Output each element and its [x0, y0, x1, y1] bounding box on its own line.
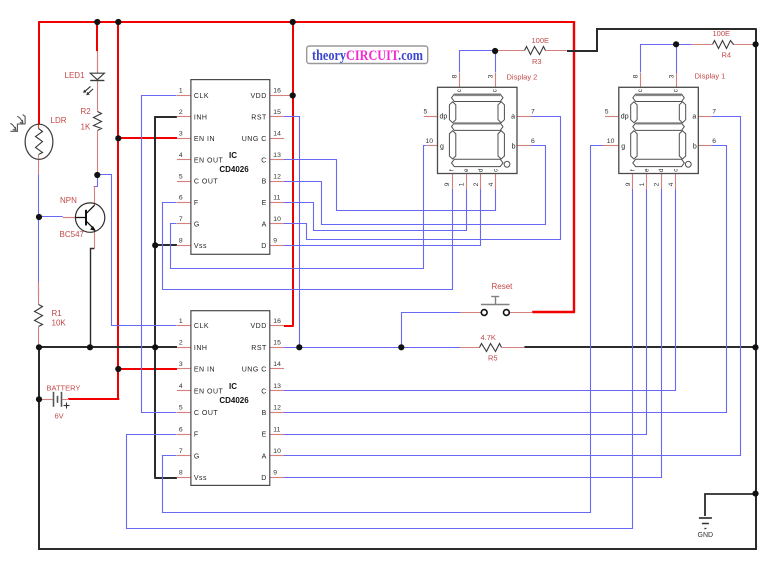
- wire segment G1: [171, 146, 427, 269]
- ground GND: [699, 517, 712, 519]
- svg-text:2: 2: [473, 182, 480, 186]
- svg-text:b: b: [512, 143, 516, 150]
- svg-text:8: 8: [179, 238, 183, 245]
- svg-text:R1: R1: [52, 309, 63, 318]
- wire reset button branch: [402, 313, 461, 348]
- svg-text:NPN: NPN: [60, 196, 77, 205]
- wire display1 b link: [698, 145, 711, 147]
- wire display2 a link: [517, 116, 531, 118]
- svg-text:c: c: [457, 89, 463, 92]
- svg-text:8: 8: [179, 470, 183, 477]
- wire R5 left lead: [460, 347, 480, 349]
- wire battery neg lead: [39, 399, 53, 401]
- svg-text:5: 5: [424, 109, 428, 116]
- svg-text:10: 10: [426, 138, 434, 145]
- svg-text:11: 11: [273, 426, 280, 433]
- wire display1 pin3 up: [676, 44, 678, 73]
- svg-text:3: 3: [179, 131, 183, 138]
- wire collector lead: [94, 186, 96, 205]
- wire segment B2: [284, 146, 727, 413]
- wire base horizontal: [39, 216, 63, 218]
- wire display1 a link: [698, 116, 711, 118]
- display DS1 box: [619, 87, 699, 173]
- svg-text:12: 12: [273, 173, 281, 180]
- svg-text:CLK: CLK: [194, 323, 209, 330]
- IC U1 CD4026 box: [191, 80, 270, 255]
- wire display2 cathode joins: [460, 51, 496, 73]
- wire segment F1: [163, 189, 453, 290]
- svg-text:F: F: [194, 200, 199, 207]
- wire cascade COUT2 to CLK1: [142, 96, 177, 413]
- svg-text:3: 3: [179, 361, 183, 368]
- svg-text:IC: IC: [229, 151, 237, 160]
- svg-text:C OUT: C OUT: [194, 179, 219, 186]
- svg-text:13: 13: [273, 383, 281, 390]
- wire display2 dp stub: [424, 116, 438, 118]
- svg-text:UNG C: UNG C: [242, 136, 267, 143]
- svg-text:10: 10: [273, 216, 281, 223]
- svg-text:Reset: Reset: [492, 282, 514, 291]
- svg-text:4: 4: [668, 182, 675, 186]
- battery B1: [53, 392, 55, 407]
- svg-text:14: 14: [273, 131, 281, 138]
- svg-text:G: G: [194, 453, 200, 460]
- svg-text:C: C: [261, 157, 267, 164]
- svg-text:100E: 100E: [532, 36, 550, 45]
- svg-text:g: g: [440, 143, 444, 150]
- svg-text:4.7K: 4.7K: [481, 333, 496, 342]
- svg-text:R2: R2: [81, 107, 92, 116]
- wire emitter to ground bus: [91, 249, 95, 348]
- wire battery plus to column: [68, 398, 119, 400]
- svg-text:R3: R3: [532, 57, 542, 66]
- wire display1 g stub: [603, 145, 619, 147]
- svg-text:BC547: BC547: [60, 230, 85, 239]
- LDR: [25, 124, 53, 159]
- display DS2 decimal point: [504, 161, 510, 167]
- svg-text:B: B: [262, 179, 267, 186]
- svg-text:E: E: [262, 200, 267, 207]
- wire battery pos lead: [63, 399, 70, 401]
- wire LED feed: [96, 21, 98, 51]
- wire R3 right lead: [546, 50, 567, 52]
- svg-text:Vss: Vss: [194, 475, 207, 482]
- svg-text:8: 8: [633, 74, 640, 78]
- svg-text:9: 9: [444, 182, 451, 186]
- wire VDD column to battery: [117, 21, 119, 399]
- svg-text:INH: INH: [194, 115, 208, 122]
- svg-text:D: D: [261, 243, 267, 250]
- svg-text:2: 2: [179, 340, 183, 347]
- wire segment A1: [284, 117, 561, 240]
- wire segment D1: [284, 189, 481, 246]
- wire display2 bottom stubs: [452, 173, 454, 189]
- svg-text:7: 7: [531, 109, 535, 116]
- svg-text:13: 13: [273, 152, 281, 159]
- wire VDD rail to ICs: [292, 21, 294, 326]
- svg-text:EN IN: EN IN: [194, 136, 215, 143]
- svg-text:VDD: VDD: [251, 323, 267, 330]
- display DS1 segments: [631, 94, 686, 167]
- svg-text:a: a: [511, 114, 515, 121]
- wire display1 cathode joins: [641, 45, 692, 73]
- svg-text:B: B: [262, 410, 267, 417]
- svg-text:R4: R4: [722, 51, 732, 60]
- svg-text:9: 9: [273, 470, 277, 477]
- LDR arrows: [10, 115, 25, 132]
- svg-text:D: D: [261, 475, 267, 482]
- wire IC1 RST down: [284, 117, 300, 348]
- svg-text:8: 8: [452, 74, 459, 78]
- wire display1 bottom stubs: [632, 174, 634, 189]
- wire sensor to IC2 CLK: [98, 175, 177, 326]
- wire INH Vss vertical: [154, 117, 156, 478]
- svg-text:BATTERY: BATTERY: [47, 384, 81, 393]
- svg-text:C: C: [261, 388, 267, 395]
- resistor R2: [94, 112, 102, 131]
- svg-text:d: d: [659, 169, 665, 172]
- svg-text:dp: dp: [440, 114, 448, 121]
- wire VDD top rail: [39, 21, 574, 23]
- svg-text:A: A: [262, 453, 267, 460]
- wire top right ground: [567, 29, 756, 51]
- svg-text:EN IN: EN IN: [194, 367, 215, 374]
- svg-text:R5: R5: [488, 354, 498, 363]
- wire display1 top stubs: [640, 73, 642, 87]
- svg-text:5: 5: [605, 109, 609, 116]
- wire IC1 Vss spur: [154, 244, 177, 246]
- wire reset left lead: [460, 312, 481, 314]
- wire segment C2: [284, 189, 676, 391]
- svg-text:d: d: [478, 169, 484, 172]
- svg-text:Display 1: Display 1: [695, 72, 726, 81]
- svg-text:5: 5: [179, 405, 183, 412]
- svg-text:9: 9: [625, 182, 632, 186]
- wire R4 left lead: [692, 44, 712, 46]
- wire IC1 VDD stub link: [270, 95, 293, 97]
- wire emitter lead: [94, 231, 96, 250]
- svg-text:CD4026: CD4026: [219, 396, 249, 405]
- LED1 arrows: [84, 86, 90, 92]
- wire R5 right lead: [502, 347, 525, 349]
- wire base lead: [63, 217, 76, 219]
- wire collector jog: [94, 175, 98, 187]
- wire R1 top lead: [38, 282, 40, 305]
- push button Reset: [481, 310, 487, 316]
- wire ground bus: [39, 346, 177, 348]
- svg-text:b: b: [693, 143, 697, 150]
- resistor R5: [480, 344, 502, 352]
- svg-text:7: 7: [712, 109, 716, 116]
- wire R1 bottom lead: [38, 327, 40, 348]
- wire display2 g stub: [427, 145, 438, 147]
- display DS2 segments: [449, 94, 504, 167]
- svg-text:E: E: [262, 432, 267, 439]
- svg-text:6: 6: [179, 195, 183, 202]
- wire IC2 VDD link: [284, 325, 294, 327]
- svg-text:15: 15: [273, 340, 281, 347]
- svg-text:c: c: [493, 169, 499, 172]
- svg-text:dp: dp: [621, 114, 629, 121]
- wire reset VDD rail: [573, 21, 575, 313]
- svg-text:9: 9: [273, 238, 277, 245]
- svg-text:EN OUT: EN OUT: [194, 388, 224, 395]
- svg-text:4: 4: [179, 383, 183, 390]
- svg-text:F: F: [194, 432, 199, 439]
- IC2 pin stubs: [177, 325, 191, 327]
- junction dots: [94, 19, 100, 25]
- display DS1 decimal point: [685, 161, 691, 167]
- wire GND branch: [705, 494, 756, 516]
- wire segment A2: [284, 117, 741, 456]
- wire segment G2: [163, 146, 604, 513]
- svg-text:15: 15: [273, 109, 281, 116]
- svg-text:UNG C: UNG C: [242, 367, 267, 374]
- svg-text:A: A: [262, 222, 267, 229]
- svg-text:1: 1: [179, 318, 183, 325]
- svg-text:1: 1: [639, 182, 646, 186]
- logo theoryCIRCUIT.com: [307, 46, 428, 64]
- svg-text:2: 2: [179, 109, 183, 116]
- svg-text:14: 14: [273, 361, 281, 368]
- wire IC1 INH spur: [154, 116, 177, 118]
- svg-text:16: 16: [273, 318, 281, 325]
- svg-text:Display 2: Display 2: [507, 73, 538, 82]
- svg-text:5: 5: [179, 173, 183, 180]
- svg-text:3: 3: [669, 74, 676, 78]
- svg-text:C OUT: C OUT: [194, 410, 219, 417]
- wire right ground rail: [755, 28, 757, 550]
- svg-text:EN OUT: EN OUT: [194, 157, 224, 164]
- resistor R3: [525, 47, 546, 55]
- wire R5 to ground rail: [524, 346, 755, 348]
- wire display2 b link: [517, 145, 531, 147]
- svg-text:1: 1: [458, 182, 465, 186]
- wire R4 right lead: [733, 44, 756, 46]
- svg-text:6: 6: [712, 138, 716, 145]
- svg-text:6: 6: [531, 138, 535, 145]
- wire reset VDD horizontal: [532, 311, 575, 313]
- svg-text:theoryCIRCUIT.com: theoryCIRCUIT.com: [312, 48, 423, 64]
- wire segment F2: [127, 189, 633, 529]
- wire ENIN branch IC1: [118, 137, 177, 139]
- svg-text:11: 11: [273, 195, 280, 202]
- svg-text:CD4026: CD4026: [219, 165, 249, 174]
- wire left ground down: [38, 346, 40, 550]
- wire reset right lead: [509, 312, 532, 314]
- svg-text:c: c: [674, 89, 680, 92]
- wire segment B1: [284, 146, 546, 225]
- svg-text:IC: IC: [229, 382, 237, 391]
- svg-text:7: 7: [179, 448, 183, 455]
- svg-text:LED1: LED1: [65, 71, 86, 80]
- svg-text:2: 2: [653, 182, 660, 186]
- svg-text:1: 1: [179, 88, 183, 95]
- wire display2 top stubs: [459, 73, 461, 87]
- wire LDR to base and R1: [38, 174, 40, 297]
- svg-text:c: c: [673, 169, 679, 172]
- wire display1 dp stub: [605, 116, 619, 118]
- svg-text:LDR: LDR: [51, 116, 67, 125]
- transistor Q1 BC547: [75, 203, 104, 232]
- svg-text:RST: RST: [251, 115, 267, 122]
- svg-text:10: 10: [607, 138, 615, 145]
- svg-text:100E: 100E: [713, 29, 731, 38]
- svg-text:GND: GND: [698, 532, 714, 539]
- wire LDR bottom lead: [38, 159, 40, 174]
- svg-text:Vss: Vss: [194, 243, 207, 250]
- display DS2 box: [438, 87, 518, 173]
- svg-text:VDD: VDD: [251, 93, 267, 100]
- IC1 pin stubs: [177, 95, 191, 97]
- wire LED to R2 lead: [97, 81, 99, 112]
- svg-text:c: c: [493, 89, 499, 92]
- svg-text:1K: 1K: [81, 123, 91, 132]
- svg-text:16: 16: [273, 88, 281, 95]
- svg-text:CLK: CLK: [194, 93, 209, 100]
- wire segment E2: [284, 189, 647, 435]
- wire segment E1: [284, 189, 467, 231]
- svg-text:10: 10: [273, 448, 281, 455]
- wire R3 left lead: [495, 50, 524, 52]
- svg-text:4: 4: [179, 152, 183, 159]
- svg-text:10K: 10K: [52, 319, 67, 328]
- svg-text:c: c: [638, 89, 644, 92]
- svg-text:6: 6: [179, 426, 183, 433]
- wire segment C1: [284, 160, 496, 211]
- resistor R1: [35, 305, 43, 327]
- svg-text:g: g: [621, 143, 625, 150]
- wire RST line: [284, 347, 460, 349]
- svg-text:7: 7: [179, 216, 183, 223]
- wire R2 bottom lead: [97, 131, 99, 175]
- svg-text:a: a: [692, 114, 696, 121]
- wire left rail to LDR: [38, 21, 40, 124]
- svg-text:6V: 6V: [55, 412, 64, 421]
- wire segment D2: [284, 189, 662, 478]
- svg-text:4: 4: [488, 182, 495, 186]
- svg-text:RST: RST: [251, 345, 267, 352]
- svg-text:12: 12: [273, 405, 281, 412]
- wire ENIN branch IC2: [118, 368, 177, 370]
- svg-text:G: G: [194, 222, 200, 229]
- LED1: [90, 73, 104, 80]
- wire IC2 Vss spur: [154, 477, 177, 479]
- svg-text:3: 3: [488, 74, 495, 78]
- wire bottom ground rail: [38, 548, 757, 550]
- IC U2 CD4026 box: [191, 311, 270, 486]
- svg-text:INH: INH: [194, 345, 208, 352]
- resistor R4: [713, 41, 734, 49]
